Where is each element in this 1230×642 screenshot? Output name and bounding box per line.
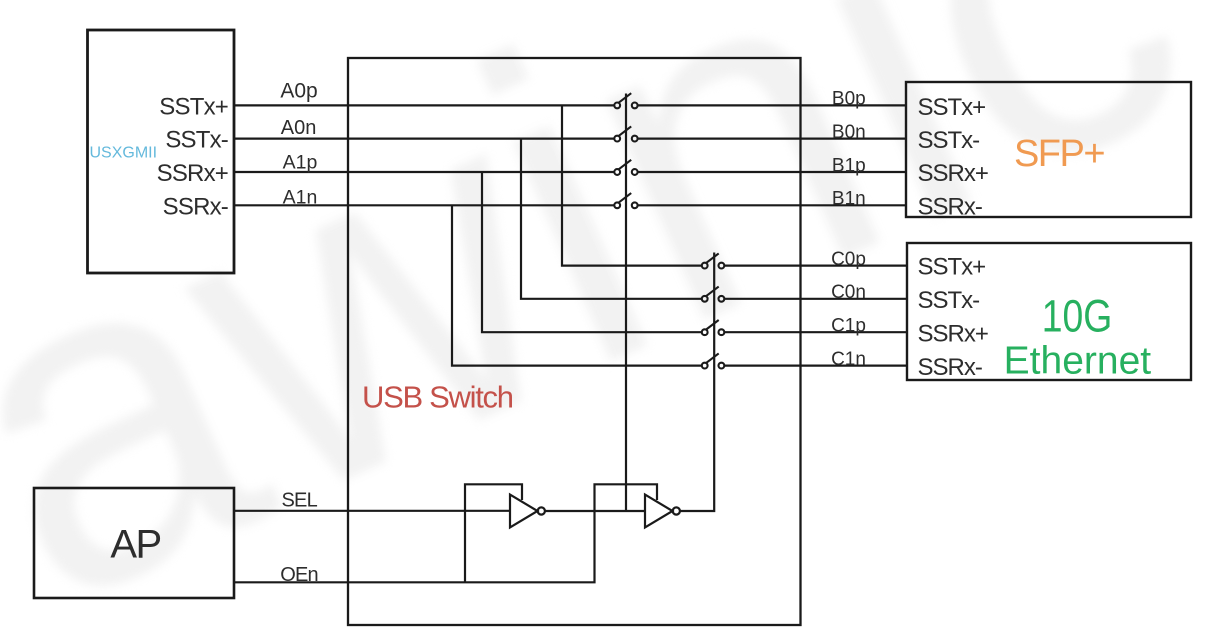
wire A1p <box>234 171 614 173</box>
switch SW1 B0p <box>614 93 637 108</box>
switch SW8 C1n <box>702 353 725 368</box>
svg-text:USB Switch: USB Switch <box>362 380 513 415</box>
wire gang control of B switches <box>625 94 627 512</box>
inverter U2 <box>645 495 680 528</box>
wire tap A1p to C1p feed <box>482 172 702 332</box>
svg-text:C1n: C1n <box>831 349 866 370</box>
svg-text:C0n: C0n <box>831 282 866 303</box>
svg-text:A1p: A1p <box>283 152 318 174</box>
wire B1n <box>638 204 906 206</box>
svg-text:SSTx-: SSTx- <box>918 127 980 154</box>
wire C1n <box>724 365 907 367</box>
svg-text:AP: AP <box>110 522 160 566</box>
wire OEn <box>234 484 657 582</box>
box 10G Ethernet <box>907 243 1191 380</box>
wire tap A0n to C0n feed <box>521 139 702 299</box>
svg-text:SSTx+: SSTx+ <box>918 254 986 281</box>
switch SW3 B1p <box>614 160 637 175</box>
svg-text:C1p: C1p <box>831 316 866 337</box>
svg-text:OEn: OEn <box>280 564 318 586</box>
svg-text:SSRx-: SSRx- <box>918 354 982 381</box>
switch SW2 B0n <box>614 126 637 141</box>
switch SW7 C1p <box>702 320 725 335</box>
svg-text:Ethernet: Ethernet <box>1004 340 1152 383</box>
svg-text:B1n: B1n <box>832 189 866 210</box>
svg-text:A0n: A0n <box>281 117 317 139</box>
svg-text:SSTx-: SSTx- <box>165 127 228 154</box>
wire U1 output to U2 input <box>545 510 645 512</box>
svg-text:SSTx+: SSTx+ <box>918 94 986 121</box>
wire B0p <box>638 104 906 106</box>
wire gang control of C switches from U2 output <box>680 253 714 512</box>
svg-text:USXGMII: USXGMII <box>90 145 158 162</box>
wire tap A0p to C0p feed <box>562 105 702 265</box>
svg-text:A0p: A0p <box>280 80 317 103</box>
svg-text:SEL: SEL <box>281 489 317 511</box>
svg-text:SSTx-: SSTx- <box>918 287 980 314</box>
box USB Switch <box>348 58 801 625</box>
wire A1n <box>234 204 614 206</box>
svg-text:B1p: B1p <box>832 155 866 176</box>
wire C1p <box>724 331 907 333</box>
wire tap A1n to C1n feed <box>452 205 702 365</box>
svg-text:B0n: B0n <box>832 122 866 143</box>
wire SEL <box>234 510 510 512</box>
svg-text:SFP+: SFP+ <box>1014 133 1104 175</box>
svg-text:C0p: C0p <box>831 249 866 270</box>
wire A0n <box>234 138 614 140</box>
svg-text:10G: 10G <box>1042 291 1113 341</box>
wire C0p <box>724 265 907 267</box>
svg-text:A1n: A1n <box>283 187 318 209</box>
wire C0n <box>724 298 907 300</box>
wire A0p <box>234 104 614 106</box>
svg-text:SSRx+: SSRx+ <box>918 160 988 187</box>
svg-text:SSRx+: SSRx+ <box>157 160 228 187</box>
svg-text:B0p: B0p <box>832 89 866 110</box>
svg-text:SSRx-: SSRx- <box>163 193 228 220</box>
svg-text:SSRx-: SSRx- <box>918 193 982 220</box>
box AP <box>34 488 234 598</box>
inverter U1 <box>510 495 545 528</box>
switch SW5 C0p <box>702 253 725 268</box>
switch SW4 B1n <box>614 193 637 208</box>
box SFP+ <box>906 82 1191 217</box>
svg-text:SSTx+: SSTx+ <box>159 94 228 121</box>
wire OEn branch to U1 enable <box>465 484 522 582</box>
wire B0n <box>638 138 906 140</box>
box USXGMII <box>88 30 235 273</box>
wire B1p <box>638 171 906 173</box>
svg-text:SSRx+: SSRx+ <box>918 320 988 347</box>
switch SW6 C0n <box>702 287 725 302</box>
